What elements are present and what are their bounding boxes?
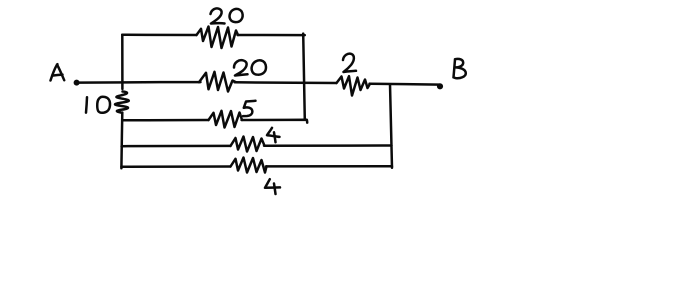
node B terminal dot xyxy=(438,84,443,89)
node A label xyxy=(51,64,65,80)
wire: lower branch 2 left segment xyxy=(121,165,230,168)
R10 value label "10" xyxy=(86,97,110,113)
node A terminal dot xyxy=(74,80,79,85)
wire: left vertical bus lower part xyxy=(120,113,123,169)
wire middle resistor to resistor 2 xyxy=(235,81,337,84)
wire: top branch of rectangle xyxy=(122,34,196,37)
wire: left vertical bus xyxy=(121,35,124,89)
R5 value label "5" xyxy=(243,101,256,116)
R4 upper value label "4" xyxy=(267,128,280,142)
R20 top value label "20" xyxy=(211,8,243,23)
resistor R 20 (top branch) xyxy=(197,27,239,49)
wire: lower branch 1 left segment xyxy=(122,145,231,148)
wire: bottom branch of rectangle xyxy=(122,119,208,122)
wire: right vertical bus xyxy=(390,84,392,168)
resistor R 4 (lower branch 2) xyxy=(231,158,267,173)
resistor R 4 (lower branch 1) xyxy=(231,137,265,152)
resistor R 5 (rectangle bottom branch) xyxy=(209,111,243,128)
wire: top branch right part xyxy=(238,34,305,37)
R2 value label "2" xyxy=(343,54,356,72)
wire: lower branch 1 right segment xyxy=(264,144,392,147)
resistor R 2 xyxy=(337,76,371,95)
resistor R 20 (middle branch) xyxy=(199,72,236,92)
wire: rectangle right vertical xyxy=(303,34,305,120)
wire A to middle resistor xyxy=(79,81,201,84)
R4 lower value label "4" xyxy=(265,179,280,194)
wire: bottom branch right part xyxy=(242,120,308,123)
resistor R 10 (coil on left bus) xyxy=(115,92,129,113)
wire resistor 2 to node B xyxy=(370,82,440,85)
R20 middle value label "20" xyxy=(234,60,266,75)
node B label xyxy=(454,59,466,78)
wire: lower branch 2 right segment xyxy=(266,165,392,168)
